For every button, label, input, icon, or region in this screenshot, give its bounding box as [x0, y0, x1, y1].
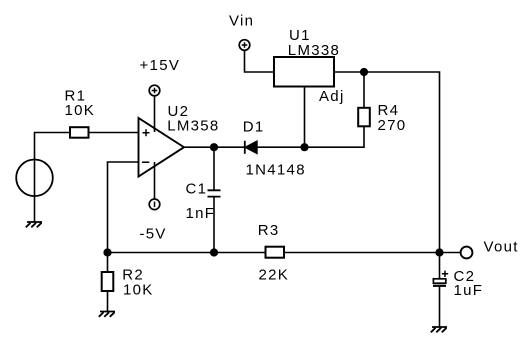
svg-text:R3: R3	[258, 222, 280, 239]
svg-text:22K: 22K	[259, 266, 290, 283]
label R3	[258, 222, 280, 239]
resistor R4	[358, 108, 370, 127]
ground under C2	[431, 327, 447, 332]
wire C1 to feedback line	[213, 197, 215, 253]
resistor R3	[266, 247, 285, 258]
svg-text:LM338: LM338	[288, 42, 340, 59]
wire Vin to U1	[245, 50, 275, 72]
label Vin	[229, 12, 254, 29]
node dot Vout	[435, 248, 443, 256]
label C1	[186, 180, 208, 197]
wire source top corner to R1	[35, 133, 71, 223]
wire Adj pin	[304, 87, 306, 148]
wire R3 to Vout node	[284, 252, 440, 254]
node dot U1 output	[360, 68, 368, 76]
wire Vout node to C2	[439, 253, 441, 280]
svg-text:-5V: -5V	[140, 225, 167, 242]
label Vout	[484, 238, 519, 255]
label R1 value 10K	[65, 102, 96, 119]
label R2 value 10K	[123, 281, 154, 298]
label -5V	[140, 225, 167, 242]
label Adj	[319, 88, 345, 105]
label R4	[378, 102, 400, 119]
label R1	[65, 87, 87, 104]
wire op-amp output to D1	[184, 146, 245, 148]
label 1N4148	[246, 162, 306, 179]
label R2	[122, 266, 144, 283]
C2 plus marking	[442, 271, 448, 277]
resistor R1	[70, 127, 89, 138]
label U1	[289, 27, 311, 44]
svg-text:270: 270	[378, 117, 407, 134]
wire Vout node to terminal	[440, 252, 461, 254]
label U2	[168, 103, 190, 120]
svg-text:1N4148: 1N4148	[246, 162, 306, 179]
node dot C1 bottom	[210, 248, 218, 256]
svg-text:+15V: +15V	[140, 57, 181, 74]
capacitor C2 polarized	[433, 279, 446, 286]
label LM338	[288, 42, 340, 59]
svg-text:Vout: Vout	[484, 238, 519, 255]
node dot feedback left	[103, 248, 111, 256]
wire feedback node to R3	[108, 252, 266, 254]
wire op-amp to -5V	[154, 162, 156, 199]
label C1 value 1nF	[186, 205, 216, 222]
+15V terminal	[149, 85, 160, 96]
source V1 circle	[16, 160, 53, 197]
svg-text:LM358: LM358	[167, 117, 219, 134]
wire output node to C1	[213, 147, 215, 190]
label C2	[454, 268, 476, 285]
op-amp + input marking	[143, 129, 150, 136]
svg-text:C1: C1	[186, 180, 208, 197]
node dot Adj junction	[300, 143, 308, 151]
node dot op-amp output	[210, 143, 218, 151]
diode D1	[245, 141, 257, 154]
svg-text:1uF: 1uF	[454, 282, 484, 299]
wire C2 to ground	[439, 287, 441, 327]
wire D1 to R4 bottom corner	[258, 126, 364, 147]
svg-text:D1: D1	[243, 118, 265, 135]
capacitor C1	[208, 190, 221, 196]
svg-text:1nF: 1nF	[186, 205, 216, 222]
svg-text:10K: 10K	[123, 281, 154, 298]
label D1	[243, 118, 265, 135]
label LM358	[167, 117, 219, 134]
wire - input to feedback node	[108, 162, 139, 253]
wire +15V to op-amp	[154, 96, 156, 132]
label C2 value 1uF	[454, 282, 484, 299]
resistor R2	[102, 272, 114, 291]
wire R4 top to node	[363, 72, 365, 108]
ground under source	[26, 222, 42, 227]
Vin terminal	[239, 40, 250, 51]
-5V terminal	[149, 199, 160, 210]
wire U1 output to Vout rail	[334, 72, 440, 253]
op-amp - input marking	[142, 161, 149, 163]
Vout terminal circle	[461, 247, 473, 259]
svg-text:Vin: Vin	[229, 12, 254, 29]
svg-text:Adj: Adj	[319, 88, 345, 105]
label +15V	[140, 57, 181, 74]
wire R1 to op-amp + input	[89, 132, 139, 134]
svg-text:10K: 10K	[65, 102, 96, 119]
label R4 value 270	[378, 117, 407, 134]
regulator U1 box	[274, 57, 334, 87]
wire R2 to ground	[107, 291, 109, 312]
label R3 value 22K	[259, 266, 290, 283]
ground under R2	[99, 312, 115, 317]
wire node to R2	[107, 253, 109, 273]
op-amp U2 triangle	[139, 118, 185, 177]
